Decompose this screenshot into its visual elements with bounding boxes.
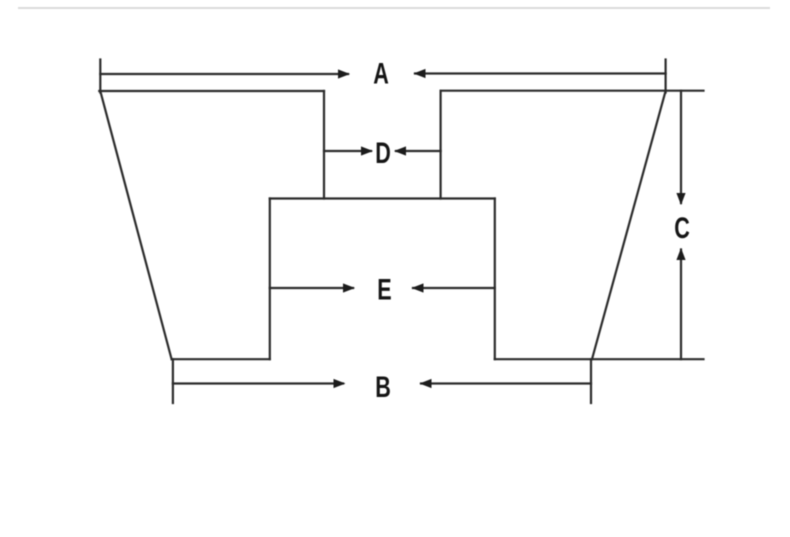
dimension line E right segment [413,287,495,289]
neck right vertical [440,91,442,199]
neck left vertical [323,91,325,199]
dimension line C upper segment [680,91,682,203]
shape top edge left [99,90,324,92]
dimension line A left segment [100,73,348,75]
dimension line B right segment [421,382,591,384]
svg-text:E: E [377,272,391,306]
arrowhead C down-pointing [676,193,685,205]
middle block left wall [269,199,271,360]
dimension line B left segment [173,382,343,384]
arrowhead D right-pointing [361,146,373,155]
extension tick bottom-left [172,359,174,403]
dimension line A right segment [415,72,666,74]
dimension line D right segment [396,150,441,152]
right outer slant [592,91,666,359]
extension tick bottom-right [590,359,592,403]
arrowhead A right-pointing [338,69,350,78]
middle block right wall [494,199,496,360]
bottom edge left foot [172,358,270,360]
left outer slant [100,91,171,359]
dimension line C lower segment [680,250,682,360]
svg-text:B: B [375,369,391,403]
extension tick top-right [664,60,666,93]
arrowhead E left-pointing [412,283,424,292]
svg-text:D: D [375,135,391,169]
middle block top horizontal [270,197,495,199]
arrowhead B right-pointing [334,379,346,388]
svg-text:A: A [373,56,389,90]
arrowhead E right-pointing [343,283,355,292]
arrowhead D left-pointing [394,146,406,155]
arrowhead B left-pointing [420,379,432,388]
bottom edge right foot with C extension [495,358,704,360]
arrowhead C up-pointing [676,248,685,260]
top separator line [18,7,770,9]
dimension line E left segment [270,287,353,289]
extension tick top-left [99,60,101,93]
shape top edge right with C extension [441,90,704,92]
arrowhead A left-pointing [414,69,426,78]
dimension line D left segment [324,150,371,152]
svg-text:C: C [674,210,690,244]
